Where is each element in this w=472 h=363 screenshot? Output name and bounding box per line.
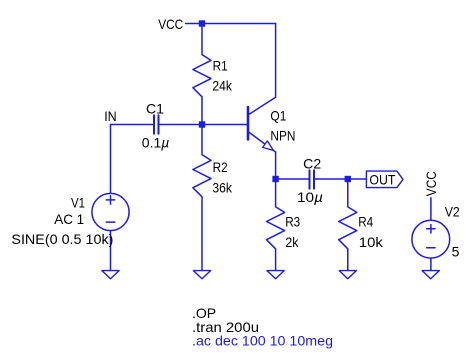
- wire C1 right plate to base node: [159, 124, 248, 126]
- capacitor C2: [310, 170, 315, 188]
- svg-text:10µ: 10µ: [297, 189, 323, 205]
- resistor R4: [339, 179, 357, 271]
- wire IN to C1 left plate: [111, 124, 154, 126]
- ground under V1: [102, 271, 119, 279]
- svg-text:SINE(0 0.5 10k): SINE(0 0.5 10k): [11, 231, 113, 247]
- svg-text:10k: 10k: [359, 234, 384, 250]
- voltage source V1: [92, 193, 129, 230]
- svg-text:C2: C2: [303, 155, 321, 171]
- svg-text:24k: 24k: [212, 77, 232, 93]
- svg-text:0.1µ: 0.1µ: [142, 135, 170, 151]
- voltage source V2: [412, 220, 450, 258]
- node junction N001 (VCC rail): [199, 20, 205, 26]
- svg-text:.ac dec 100 10 10meg: .ac dec 100 10 10meg: [192, 333, 333, 349]
- svg-text:2k: 2k: [285, 234, 299, 250]
- ground under R3: [267, 271, 284, 279]
- node junction OUT node: [345, 176, 351, 182]
- wire VCC label to V2: [430, 198, 432, 221]
- wire V1 to ground: [110, 231, 112, 271]
- wire IN drop to V1: [110, 125, 112, 194]
- resistor R3: [267, 179, 285, 271]
- ground under R2: [193, 271, 210, 279]
- svg-text:OUT: OUT: [369, 171, 395, 187]
- resistor R1: [193, 24, 211, 125]
- svg-text:VCC: VCC: [423, 171, 439, 196]
- wire OUT node to port: [348, 178, 367, 180]
- wire V2 to ground: [430, 258, 432, 270]
- ground under V2: [422, 271, 439, 279]
- svg-text:AC 1: AC 1: [54, 211, 84, 227]
- svg-text:R3: R3: [285, 213, 300, 229]
- svg-text:R4: R4: [358, 213, 373, 229]
- resistor R2: [193, 125, 211, 271]
- svg-text:36k: 36k: [212, 179, 232, 195]
- svg-text:R1: R1: [213, 57, 228, 73]
- wire top rail N001 to collector: [202, 23, 276, 25]
- svg-text:V1: V1: [71, 195, 85, 211]
- svg-text:Q1: Q1: [270, 108, 286, 124]
- ground under R4: [339, 271, 356, 279]
- svg-text:5: 5: [452, 243, 460, 259]
- wire emitter node to C2 left plate: [276, 178, 309, 180]
- transistor Q1: [248, 97, 276, 152]
- wire emitter drop: [275, 152, 277, 179]
- node junction emitter node: [272, 176, 278, 182]
- svg-text:IN: IN: [104, 108, 117, 124]
- node junction base node: [199, 121, 205, 127]
- wire VCC stub to node N001: [186, 23, 202, 25]
- capacitor C1: [154, 115, 159, 133]
- wire collector drop: [275, 24, 277, 98]
- svg-text:VCC: VCC: [158, 16, 183, 32]
- wire C2 right plate to OUT node: [315, 178, 348, 180]
- svg-text:R2: R2: [213, 159, 228, 175]
- port flag OUT: [366, 171, 403, 188]
- svg-text:V2: V2: [445, 204, 460, 220]
- svg-text:NPN: NPN: [270, 127, 295, 143]
- svg-text:C1: C1: [146, 100, 164, 116]
